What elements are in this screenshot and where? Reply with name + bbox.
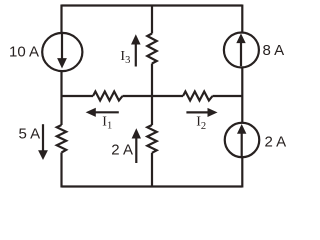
- wire left upper: [60, 5, 62, 126]
- wire middle vertical upper: [151, 5, 153, 34]
- wire top: [62, 4, 243, 6]
- arrow inside 8A source (up): [240, 43, 242, 67]
- arrow 5A (down): [42, 124, 44, 151]
- wire middle vertical lower: [151, 153, 153, 188]
- svg-text:8 A: 8 A: [263, 42, 285, 59]
- arrow I1 (left): [95, 111, 119, 113]
- arrow inside 10A source (down): [61, 33, 63, 59]
- resistor R1 (horizontal zigzag): [93, 92, 123, 101]
- resistor left (vertical zigzag): [57, 125, 66, 153]
- wire left lower: [60, 153, 62, 188]
- svg-text:10 A: 10 A: [9, 44, 39, 61]
- wire right: [241, 5, 243, 188]
- svg-text:I2: I2: [196, 115, 206, 132]
- wire middle vertical center: [151, 64, 153, 126]
- resistor R2 (horizontal zigzag): [183, 92, 213, 101]
- current source 2A right (circle): [225, 123, 260, 158]
- resistor R-bottom-middle (vertical zigzag): [147, 125, 156, 153]
- current source 10A (circle): [42, 33, 82, 71]
- svg-text:5 A: 5 A: [19, 126, 41, 143]
- wire middle horizontal right: [213, 95, 243, 97]
- arrow I3 (up): [135, 44, 137, 67]
- svg-text:I1: I1: [102, 115, 112, 132]
- resistor R-top-middle (vertical zigzag): [147, 34, 156, 64]
- svg-text:2 A: 2 A: [111, 141, 133, 158]
- svg-text:I3: I3: [120, 49, 130, 66]
- arrow I2 (right): [186, 111, 208, 113]
- wire bottom: [62, 185, 243, 187]
- wire middle horizontal left: [62, 95, 94, 97]
- arrow inside 2A right source (up): [241, 133, 243, 156]
- current source 8A (circle): [224, 33, 259, 68]
- arrow 2A middle (up): [135, 138, 137, 163]
- wire middle horizontal center: [123, 95, 184, 97]
- svg-text:2 A: 2 A: [265, 133, 287, 150]
